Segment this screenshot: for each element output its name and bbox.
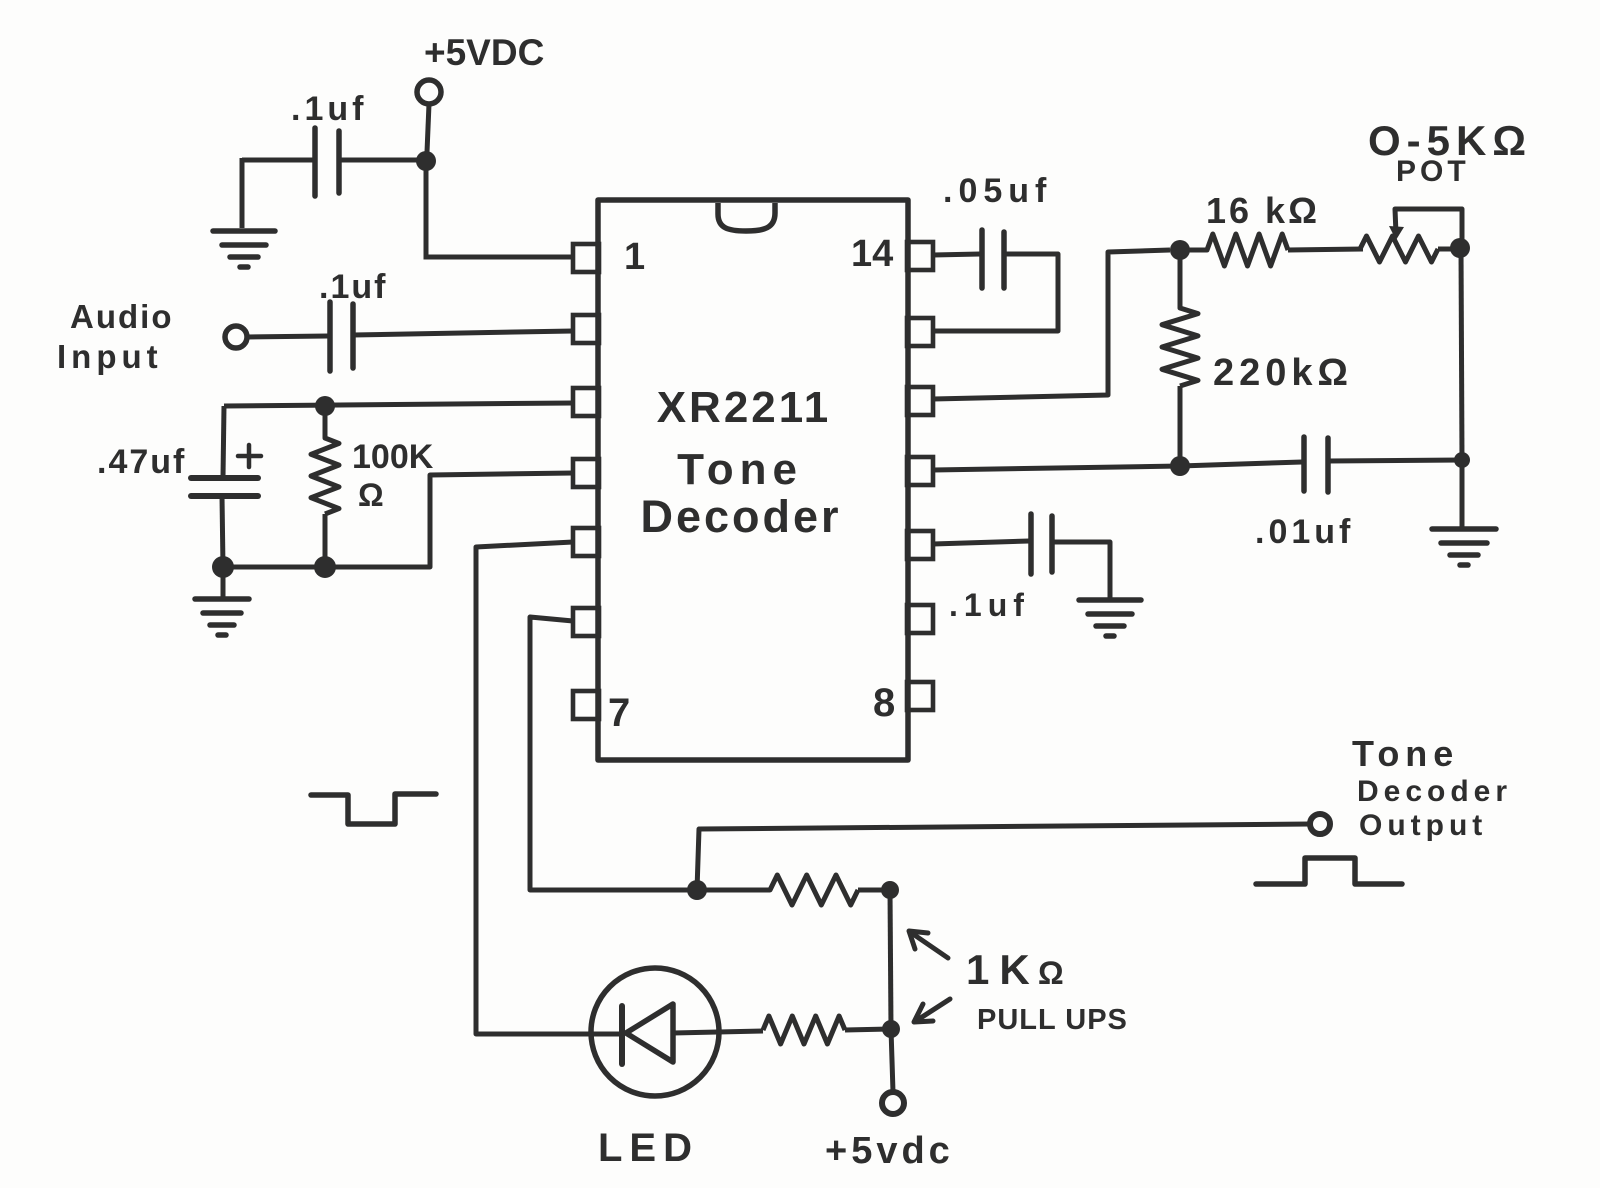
- capacitor C1 .1uf plates: [315, 128, 339, 196]
- IC left pin 3: [573, 388, 599, 416]
- svg-text:8: 8: [873, 681, 895, 725]
- node: +5V junction: [416, 151, 436, 171]
- wire C3 to ground node: [222, 496, 223, 567]
- arrow to lower pullup: [914, 999, 950, 1022]
- svg-text:.1uf: .1uf: [319, 268, 387, 306]
- node pullup-right bottom: [882, 1020, 900, 1038]
- wire pin 5 to LED branch: [476, 542, 594, 1034]
- capacitor C5 .01uf plates: [1304, 437, 1328, 492]
- potentiometer R3 0-5K body: [1360, 236, 1459, 262]
- svg-text:14: 14: [851, 233, 893, 275]
- svg-text:1: 1: [624, 236, 645, 278]
- svg-text:Decoder: Decoder: [640, 491, 841, 542]
- wire LED to R6: [673, 1031, 763, 1033]
- IC right pin 13: [907, 318, 933, 346]
- pot wiper link box: [1395, 209, 1462, 244]
- IC left pin 2: [573, 315, 599, 343]
- capacitor C4 .05uf plates: [982, 230, 1004, 288]
- svg-text:.1uf: .1uf: [949, 587, 1030, 623]
- wire C6 to ground G4: [1052, 542, 1110, 599]
- wire C2 to pin 2: [353, 331, 573, 335]
- ground G3: [1432, 529, 1496, 565]
- wire pin 10 to C6: [933, 541, 1029, 544]
- svg-text:Ω: Ω: [1038, 955, 1064, 991]
- svg-text:Audio: Audio: [70, 298, 173, 335]
- node at 100K top: [315, 396, 335, 416]
- node 220K bottom: [1170, 456, 1190, 476]
- capacitor C3 .47uf plates: [191, 478, 258, 496]
- wire ground to C1: [242, 158, 313, 163]
- wire node to ground G2: [221, 567, 226, 598]
- svg-text:PULL UPS: PULL UPS: [977, 1004, 1128, 1036]
- svg-text:Ω: Ω: [358, 477, 384, 513]
- svg-text:Input: Input: [57, 338, 163, 375]
- svg-text:Tone: Tone: [1352, 733, 1459, 774]
- wire pin 11 to 220K node: [933, 466, 1180, 470]
- IC right pin 11: [907, 457, 933, 485]
- wire C4 loop to pin 13: [933, 254, 1058, 331]
- IC left pin 1: [573, 244, 599, 272]
- svg-text:7: 7: [608, 691, 630, 735]
- wire 220K node to C5: [1180, 462, 1302, 466]
- svg-text:.01uf: .01uf: [1255, 513, 1354, 551]
- svg-text:.05uf: .05uf: [943, 172, 1052, 210]
- LED D1 circle: [591, 968, 719, 1096]
- input pulse waveform: [311, 794, 436, 824]
- svg-text:Output: Output: [1359, 809, 1487, 842]
- ground G1: [213, 231, 275, 267]
- resistor R6 1K (LED pullup): [763, 1016, 891, 1044]
- resistor R2 16K: [1180, 234, 1363, 266]
- resistor R5 1K (data pullup): [697, 875, 890, 905]
- IC right pin 14: [907, 242, 933, 270]
- output pulse waveform: [1256, 858, 1402, 884]
- svg-text:+5vdc: +5vdc: [825, 1130, 954, 1172]
- IC left pin 4: [573, 459, 599, 487]
- LED cathode bar: [619, 1006, 625, 1064]
- svg-text:POT: POT: [1396, 155, 1470, 188]
- node pot right junction: [1450, 238, 1470, 258]
- wire C5 to pot vertical: [1328, 460, 1462, 461]
- node at pot vertical: [1454, 452, 1470, 468]
- wire pin 3 node: [224, 403, 573, 406]
- IC right pin 9: [907, 605, 933, 633]
- wire between pullup junctions: [890, 890, 891, 1029]
- svg-text:LED: LED: [598, 1126, 699, 1170]
- svg-text:.1uf: .1uf: [291, 90, 367, 128]
- ground G2: [195, 599, 249, 635]
- node ground-left: [212, 556, 234, 578]
- svg-text:+5VDC: +5VDC: [424, 32, 544, 73]
- wire output riser: [697, 824, 1310, 890]
- ground G4: [1079, 600, 1141, 636]
- svg-text:1K: 1K: [966, 946, 1040, 993]
- svg-text:16 kΩ: 16 kΩ: [1206, 190, 1320, 231]
- node at 100K bottom: [314, 556, 336, 578]
- svg-text:Tone: Tone: [677, 445, 803, 494]
- arrow to upper pullup: [909, 931, 948, 958]
- capacitor C6 .1uf plates: [1031, 514, 1052, 574]
- svg-text:Decoder: Decoder: [1357, 775, 1512, 808]
- +5vdc bottom terminal: [882, 1092, 904, 1114]
- Audio Input terminal: [225, 326, 247, 348]
- resistor R1 100K: [311, 406, 339, 567]
- wire +5VDC to junction: [427, 104, 429, 152]
- wire pot junction down: [1461, 248, 1462, 460]
- pot wiper arrowhead: [1389, 226, 1404, 240]
- Tone Decoder Output terminal: [1310, 814, 1330, 834]
- wire to +5vdc terminal: [891, 1029, 893, 1092]
- wire bottom node to pin 4 riser: [223, 473, 573, 567]
- wire input to C2: [247, 336, 328, 337]
- wire down to C3: [223, 406, 224, 477]
- wire C1 left down to ground: [240, 158, 245, 228]
- wire pin 12 riser: [933, 250, 1170, 399]
- IC U1: XR2211 Tone Decoder body: [598, 200, 908, 760]
- C3 polarity +: [238, 445, 261, 467]
- node pullup-right top: [881, 881, 899, 899]
- svg-text:220kΩ: 220kΩ: [1213, 352, 1353, 394]
- IC left pin 7: [573, 691, 599, 719]
- node pullup-left junction: [687, 880, 707, 900]
- wire C1 to +5V junction: [339, 158, 418, 163]
- resistor R4 220K: [1162, 250, 1198, 466]
- +5VDC terminal: [417, 80, 441, 104]
- wire down to ground G3: [1460, 460, 1465, 528]
- node 16K/220K junction: [1170, 240, 1190, 260]
- wire junction down/right to pin 1: [426, 168, 573, 257]
- IC right pin 8: [907, 682, 933, 710]
- LED triangle: [626, 1004, 673, 1062]
- svg-text:.47uf: .47uf: [97, 443, 186, 481]
- IC right pin 12: [907, 387, 933, 415]
- IC right pin 10: [907, 531, 933, 559]
- IC left pin 6: [573, 608, 599, 636]
- capacitor C2 .1uf plates: [330, 302, 353, 371]
- wire pin 14 to C4: [933, 254, 980, 255]
- svg-text:XR2211: XR2211: [657, 383, 832, 432]
- svg-text:100K: 100K: [352, 438, 434, 476]
- wire pin 6 to pullup branch: [530, 617, 688, 890]
- IC left pin 5: [573, 528, 599, 556]
- wire through LED: [594, 1032, 622, 1037]
